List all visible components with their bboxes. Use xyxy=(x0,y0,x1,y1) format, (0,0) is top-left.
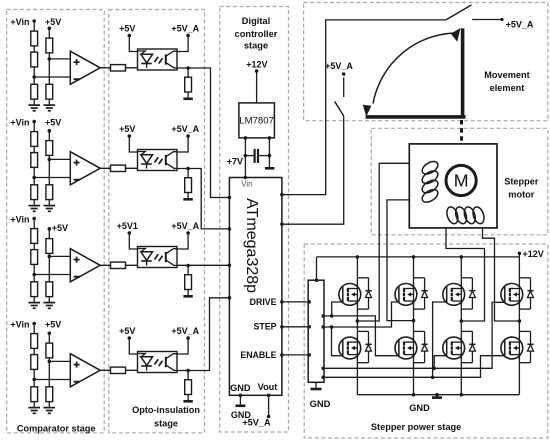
svg-text:stage: stage xyxy=(154,419,178,429)
svg-text:Digital: Digital xyxy=(242,16,270,26)
svg-text:+5V_A: +5V_A xyxy=(242,418,271,428)
svg-text:Stepper power stage: Stepper power stage xyxy=(371,422,461,432)
svg-text:stage: stage xyxy=(244,41,268,51)
svg-text:Comparator stage: Comparator stage xyxy=(17,423,96,433)
svg-text:LM7807: LM7807 xyxy=(239,116,274,127)
svg-text:+12V: +12V xyxy=(246,60,267,70)
svg-text:+Vin: +Vin xyxy=(10,320,29,330)
svg-text:+7V: +7V xyxy=(227,156,243,166)
svg-text:Opto-insulation: Opto-insulation xyxy=(132,405,200,415)
svg-text:+5V: +5V xyxy=(119,124,135,134)
svg-text:+5V_A: +5V_A xyxy=(171,326,199,336)
svg-text:STEP: STEP xyxy=(254,322,277,332)
svg-text:GND: GND xyxy=(310,398,331,409)
svg-text:+5V: +5V xyxy=(52,223,68,233)
svg-text:motor: motor xyxy=(508,189,534,199)
svg-text:+5V: +5V xyxy=(45,17,61,27)
svg-text:ATmega328p: ATmega328p xyxy=(243,198,260,293)
svg-text:+Vin: +Vin xyxy=(10,17,29,27)
svg-text:Movement: Movement xyxy=(484,70,529,80)
svg-text:+5V_A: +5V_A xyxy=(171,221,199,231)
svg-text:+5V: +5V xyxy=(45,118,61,128)
svg-text:+Vin: +Vin xyxy=(10,215,29,225)
svg-text:+5V_A: +5V_A xyxy=(325,61,353,71)
svg-text:GND: GND xyxy=(409,403,430,413)
svg-text:+Vin: +Vin xyxy=(10,118,29,128)
svg-text:ENABLE: ENABLE xyxy=(240,350,276,360)
svg-text:Vin: Vin xyxy=(241,180,252,189)
svg-text:Stepper: Stepper xyxy=(504,176,539,186)
svg-text:controller: controller xyxy=(235,29,278,39)
svg-text:M: M xyxy=(454,171,469,191)
svg-text:+12V: +12V xyxy=(523,249,544,259)
svg-text:+5V: +5V xyxy=(45,320,61,330)
svg-text:Vout: Vout xyxy=(258,382,278,392)
svg-text:element: element xyxy=(490,83,525,93)
svg-text:+5V_A: +5V_A xyxy=(171,124,199,134)
svg-text:+5V1: +5V1 xyxy=(117,221,138,231)
svg-text:+5V_A: +5V_A xyxy=(506,19,534,29)
svg-text:DRIVE: DRIVE xyxy=(250,297,277,307)
svg-text:+5V: +5V xyxy=(119,326,135,336)
svg-text:GND: GND xyxy=(230,383,251,393)
svg-text:+5V: +5V xyxy=(119,23,135,33)
svg-text:+5V_A: +5V_A xyxy=(171,23,199,33)
